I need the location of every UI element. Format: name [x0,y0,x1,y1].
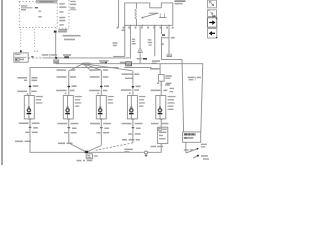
line3: lower feed rail [30,68,119,87]
toolbar button 3: next arrow [208,18,218,28]
below-box labels + lower wires col2 [58,118,85,151]
below-box labels + lower wires col3 [88,118,111,151]
relay name label [175,0,186,4]
PCM dashed box left (module A) [19,0,57,28]
injector 4 [0,0,1,1]
fan diagonal to injector3 [83,64,101,70]
relay pin labels [117,27,174,29]
wire W7 to splice symbol [167,25,172,56]
node dot above fuse [20,50,22,52]
dotted wire stub left [20,29,22,47]
label 440 dark [63,54,71,58]
fan diagonal short [83,64,92,71]
fuel pump labels [184,144,209,160]
splice fan node [82,63,84,65]
fan diagonal to injector2 [69,64,83,71]
relay switch [142,13,167,18]
splice S under rail A [54,60,59,64]
label below splice cluster [77,160,93,162]
below-box labels + lower wires col4 [94,118,143,150]
column upper labels row (wire names) [18,69,140,81]
wire W5 with labels [148,25,160,64]
injector 5 [151,81,176,119]
ground symbol G [145,151,148,157]
injector 1 [17,85,43,119]
toolbar button 2: resize arrow SE [208,10,217,17]
connector C100 dark box on rail B [120,62,132,66]
labels between pump verticals [188,76,201,80]
label near rail B right [150,68,160,70]
toolbar button 4: back arrow [208,29,218,39]
toolbar button 1: resize arrow NW [208,0,217,8]
labels above ground bus [124,149,133,153]
wire DK GRN from PCM to rail A [55,33,57,58]
wire W2 relay pin to PCM side [113,25,125,56]
rail B drop to connector box (inj5 feed) [158,64,171,86]
injector 4 feed wire [121,71,146,119]
PCM dashed box middle (module B) [56,0,70,28]
rail A: ORN feed wire to relay [28,57,42,59]
relay coil [135,3,137,25]
relay box [125,3,173,25]
module A text: sensor label [21,5,42,17]
fuel pump ground wires [186,142,199,158]
wire W4 with fusible link triangle [137,25,147,63]
label below rail A [83,63,90,65]
below-box labels + lower wires col1 [15,118,85,152]
left page border [1,0,3,165]
fuel pump box [183,132,201,142]
wire label (fuel pump signal) [63,35,81,40]
fuse block box [14,52,28,62]
ground bus and splice cluster [85,151,144,159]
PCM output node (fuel pump relay control) [54,31,67,33]
wire W6 relay output to fuel pump [161,25,184,132]
label 2 ORN left [42,54,57,57]
tiny dots right [34,51,35,52]
injector 2 [56,71,82,119]
dotted wire stub right [34,29,36,47]
wire W3 labels [132,39,136,45]
module B below-box label [59,29,68,31]
below-box labels + connector box col5 [148,118,168,152]
rail B: injector feed rail [56,64,203,132]
injector 3 [89,70,114,119]
junction node on rail A [55,57,57,59]
fan diagonal to injector4 [83,64,132,71]
wire into pin row from top (W1) [118,0,120,28]
splice label above rail B [99,60,109,63]
dark dash right of fuse box [31,56,33,57]
module B right-side text [70,1,76,10]
module B internal text [59,3,66,25]
relay pin dots [124,25,169,26]
